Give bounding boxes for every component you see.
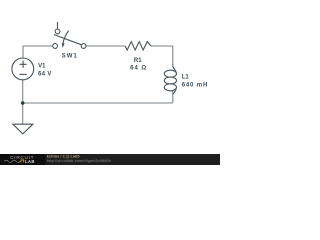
switch arrowhead (62, 43, 65, 48)
logo waveform squiggle (4, 160, 20, 162)
wire top-right horizontal (86, 45, 125, 47)
wire right vertical upper (172, 46, 174, 67)
svg-text:640 mH: 640 mH (182, 82, 208, 88)
wire resistor to corner (151, 45, 173, 47)
resistor R1 (125, 42, 151, 50)
wire bottom horizontal (23, 102, 173, 104)
svg-text:http://circuitlab.com/c9gark3v: http://circuitlab.com/c9gark3v98889 (47, 159, 111, 163)
voltage source V1 (12, 58, 34, 80)
wire right vertical lower (172, 91, 174, 103)
ground (13, 124, 33, 134)
svg-text:V1: V1 (38, 63, 46, 69)
svg-text:LAB: LAB (25, 159, 35, 164)
svg-text:L1: L1 (182, 74, 190, 80)
switch SW1 (53, 22, 86, 48)
svg-text:SW1: SW1 (62, 53, 78, 59)
label R1 value (130, 58, 147, 72)
label L1 value (182, 74, 208, 88)
wire top-left horizontal (23, 45, 53, 47)
footer bar (0, 154, 220, 165)
svg-text:64 V: 64 V (38, 71, 52, 77)
wire left vertical lower (22, 80, 24, 124)
label V1 value (38, 63, 52, 77)
wire left vertical upper (22, 46, 24, 59)
inductor L1 (164, 66, 176, 94)
node junction dot (21, 101, 25, 105)
svg-text:64 Ω: 64 Ω (130, 66, 147, 72)
logo orange mark (21, 160, 24, 163)
svg-text:R1: R1 (134, 58, 142, 64)
